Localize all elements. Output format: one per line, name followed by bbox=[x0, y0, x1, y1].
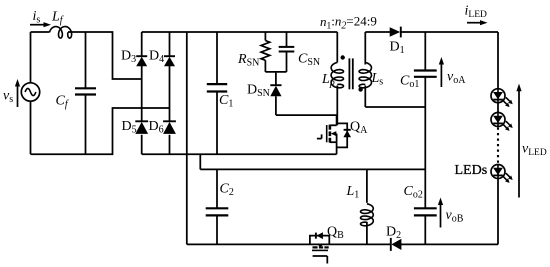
wire primary bottom to Q_A drain bbox=[336, 86, 338, 126]
wire primary top bbox=[336, 32, 338, 63]
wire LED string top bbox=[497, 32, 499, 89]
capacitor C_f bbox=[85, 32, 87, 88]
arrow v_oA bbox=[440, 65, 442, 88]
arrow i_LED bbox=[467, 22, 480, 24]
v_LED measurement line bbox=[518, 91, 520, 198]
diode D1 bbox=[400, 27, 402, 38]
capacitor C_o1 bbox=[414, 69, 437, 71]
diode D6 bbox=[163, 120, 176, 122]
wire bridge top rail bbox=[142, 31, 338, 33]
wire top from source to L_f bbox=[31, 31, 50, 33]
wire secondary top bbox=[364, 32, 366, 65]
capacitor C_SN bbox=[286, 32, 288, 47]
transistor Q_B bbox=[310, 236, 329, 245]
wire secondary bottom bbox=[364, 86, 366, 108]
wire bottom bus bbox=[187, 243, 390, 245]
diode D3 bbox=[136, 55, 147, 57]
wire rail-to-bus vertical bbox=[186, 32, 188, 244]
transistor Q_A bbox=[330, 124, 337, 126]
wire snubber RC join bbox=[265, 71, 286, 73]
wire LED string bottom bbox=[497, 178, 499, 244]
arrow v_oB bbox=[440, 205, 442, 228]
wire capacitor column Co1-Co2 bbox=[424, 32, 426, 70]
capacitor C2 bbox=[216, 169, 218, 208]
transformer core bbox=[348, 58, 350, 89]
resistor R_SN bbox=[264, 32, 266, 41]
diode D2 bbox=[390, 238, 392, 251]
wire top from L_f to step bbox=[68, 32, 142, 79]
diode D_SN bbox=[275, 72, 277, 85]
diode D5 bbox=[135, 120, 148, 122]
wire D_SN to Q_A drain bbox=[276, 114, 337, 116]
LED 1 bbox=[491, 89, 505, 103]
secondary dot bbox=[358, 87, 362, 91]
wire bridge right branch bbox=[169, 32, 171, 57]
wire bridge left branch bbox=[141, 32, 143, 57]
svg-text:LEDs: LEDs bbox=[455, 163, 488, 178]
wire LED1-LED2 bbox=[497, 103, 499, 113]
arrow i_s bbox=[30, 24, 44, 26]
primary winding L_p bbox=[331, 63, 343, 88]
arrow v_s bbox=[17, 87, 19, 108]
capacitor C1 bbox=[216, 32, 218, 84]
secondary winding L_s bbox=[359, 63, 371, 88]
ac source v_s bbox=[30, 32, 32, 154]
wire secondary top rail bbox=[365, 31, 390, 33]
LED 3 bbox=[491, 165, 505, 179]
LED 2 bbox=[491, 113, 505, 127]
diode D4 bbox=[164, 55, 175, 57]
wire line2 bbox=[200, 168, 425, 170]
dotted LED continuation bbox=[497, 128, 499, 164]
wire line1 bridge negative rail bbox=[142, 153, 337, 155]
inductor L1 bbox=[366, 169, 368, 202]
primary dot bbox=[341, 55, 345, 59]
inductor L_f bbox=[50, 27, 72, 39]
wire bottom of source loop bbox=[31, 108, 170, 154]
capacitor C_o2 bbox=[414, 207, 437, 209]
wire connector line1-line2 bbox=[199, 154, 201, 169]
